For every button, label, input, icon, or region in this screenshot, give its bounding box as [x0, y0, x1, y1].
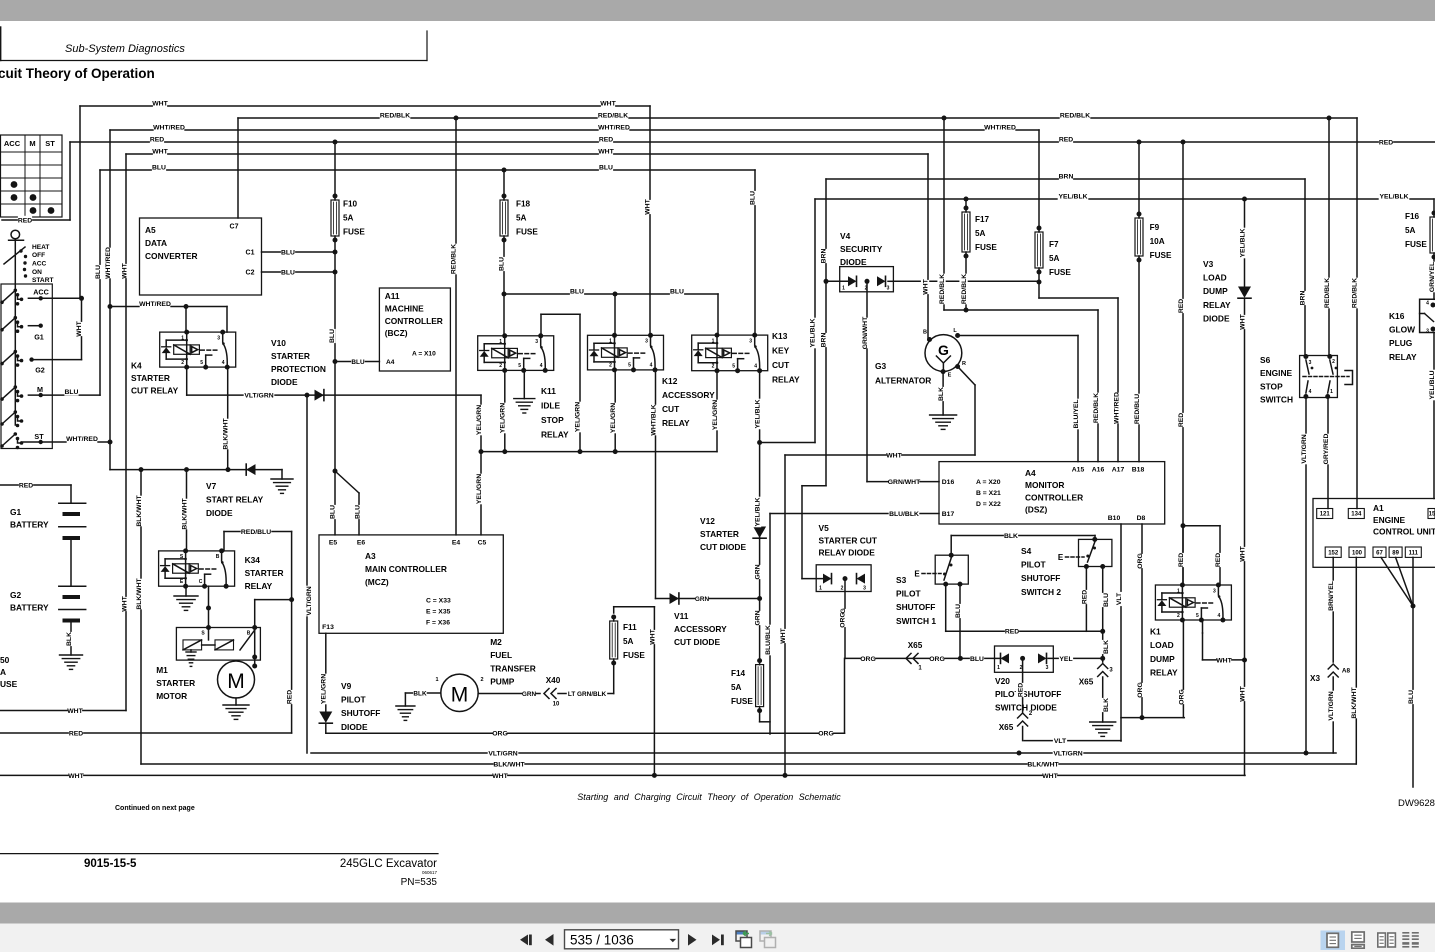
svg-text:RED/BLK: RED/BLK	[1060, 112, 1090, 119]
svg-text:RED: RED	[286, 690, 293, 704]
svg-text:BRN/YEL: BRN/YEL	[1328, 581, 1335, 611]
svg-text:WHT: WHT	[780, 627, 787, 643]
svg-text:FUSE: FUSE	[623, 651, 645, 660]
svg-text:111: 111	[1409, 550, 1419, 556]
svg-text:BRN: BRN	[1059, 173, 1074, 180]
svg-text:DUMP: DUMP	[1203, 286, 1228, 296]
svg-text:SWITCH: SWITCH	[1260, 395, 1293, 405]
svg-text:GRN: GRN	[754, 610, 761, 625]
svg-text:RED: RED	[1081, 590, 1088, 604]
svg-text:ST: ST	[45, 139, 55, 148]
svg-text:BLU: BLU	[65, 389, 79, 396]
svg-text:FUSE: FUSE	[516, 228, 538, 237]
svg-text:GRN: GRN	[754, 564, 761, 579]
svg-text:STARTER CUT: STARTER CUT	[819, 535, 878, 545]
svg-text:ACCESSORY: ACCESSORY	[674, 624, 727, 634]
svg-text:GRN/YEL: GRN/YEL	[1429, 262, 1435, 292]
svg-text:5: 5	[1196, 613, 1199, 619]
svg-text:BLU: BLU	[351, 359, 365, 366]
svg-text:RED/BLK: RED/BLK	[1324, 278, 1331, 308]
svg-text:C5: C5	[478, 539, 487, 546]
svg-text:5: 5	[200, 360, 203, 366]
svg-text:ENGINE: ENGINE	[1260, 368, 1293, 378]
svg-text:BLU: BLU	[749, 191, 756, 205]
svg-text:BATTERY: BATTERY	[10, 603, 49, 613]
svg-text:BLU: BLU	[599, 164, 613, 171]
svg-text:YEL/BLK: YEL/BLK	[1379, 193, 1408, 200]
svg-text:G2: G2	[35, 366, 45, 375]
svg-text:FUSE: FUSE	[1150, 251, 1172, 260]
svg-text:V5: V5	[819, 523, 830, 533]
svg-text:YEL/GRN: YEL/GRN	[476, 474, 483, 504]
svg-text:RED: RED	[1005, 629, 1019, 636]
svg-text:GRY/RED: GRY/RED	[1323, 434, 1330, 465]
svg-text:VLT/GRN: VLT/GRN	[244, 393, 273, 400]
svg-text:2: 2	[480, 677, 483, 683]
svg-text:GRN: GRN	[522, 691, 537, 698]
svg-text:START: START	[32, 277, 54, 284]
svg-text:FUSE: FUSE	[731, 697, 753, 706]
svg-text:CONVERTER: CONVERTER	[145, 251, 198, 261]
svg-text:DIODE: DIODE	[206, 508, 233, 518]
svg-text:PILOT: PILOT	[896, 589, 922, 599]
svg-text:2: 2	[841, 585, 844, 591]
svg-text:WHT/RED: WHT/RED	[1113, 392, 1120, 424]
svg-text:LOAD: LOAD	[1203, 273, 1227, 283]
svg-text:WHT: WHT	[152, 148, 168, 155]
svg-text:E4: E4	[452, 539, 461, 546]
svg-text:WHT: WHT	[600, 100, 616, 107]
svg-text:X65: X65	[999, 723, 1014, 732]
svg-text:MOTOR: MOTOR	[156, 691, 187, 701]
svg-text:YEL/BLK: YEL/BLK	[1239, 228, 1246, 257]
svg-text:FUSE: FUSE	[975, 243, 997, 252]
svg-text:15: 15	[1429, 512, 1435, 518]
svg-text:WHT: WHT	[121, 262, 128, 278]
svg-text:MACHINE: MACHINE	[385, 303, 424, 313]
svg-text:RELAY: RELAY	[1150, 668, 1178, 678]
svg-text:RED/BLK: RED/BLK	[939, 274, 946, 304]
svg-text:F11: F11	[623, 623, 637, 632]
svg-text:50: 50	[0, 655, 10, 665]
svg-text:S4: S4	[1021, 546, 1032, 556]
svg-text:WHT: WHT	[1239, 545, 1246, 561]
svg-text:STARTER: STARTER	[700, 529, 739, 539]
svg-text:V7: V7	[206, 481, 217, 491]
svg-text:134: 134	[1351, 512, 1362, 518]
svg-text:5: 5	[518, 363, 521, 369]
svg-text:VLT/GRN: VLT/GRN	[306, 586, 313, 615]
svg-text:ORG: ORG	[1137, 553, 1144, 568]
svg-text:67: 67	[1376, 550, 1383, 556]
svg-text:B17: B17	[942, 511, 955, 518]
svg-text:BLU: BLU	[955, 604, 962, 618]
svg-text:4: 4	[1309, 389, 1312, 395]
svg-text:5A: 5A	[975, 229, 986, 238]
svg-text:YEL/GRN: YEL/GRN	[574, 402, 581, 432]
svg-text:HEAT: HEAT	[32, 244, 49, 251]
svg-text:WHT: WHT	[152, 100, 168, 107]
svg-text:YEL/BLK: YEL/BLK	[809, 318, 816, 347]
svg-text:5A: 5A	[623, 637, 634, 646]
svg-text:A5: A5	[145, 225, 156, 235]
svg-text:ORG: ORG	[839, 612, 846, 627]
svg-text:PN=535: PN=535	[401, 877, 438, 888]
svg-text:RED/BLK: RED/BLK	[598, 112, 628, 119]
svg-text:A16: A16	[1092, 466, 1105, 473]
svg-text:YEL/BLU: YEL/BLU	[1429, 370, 1435, 399]
svg-text:BLK: BLK	[1103, 640, 1110, 654]
svg-text:A = X20: A = X20	[976, 479, 1001, 486]
svg-text:1: 1	[1330, 389, 1333, 395]
svg-text:F16: F16	[1405, 212, 1420, 221]
svg-text:10A: 10A	[1150, 237, 1165, 246]
svg-text:1: 1	[609, 339, 612, 345]
svg-text:GRN/WHT: GRN/WHT	[888, 479, 921, 486]
svg-text:SHUTOFF: SHUTOFF	[1021, 573, 1060, 583]
svg-text:5: 5	[628, 363, 631, 369]
svg-text:E = X35: E = X35	[426, 608, 451, 615]
svg-text:2: 2	[1177, 613, 1180, 619]
svg-text:X40: X40	[546, 676, 561, 685]
svg-text:VLT: VLT	[1116, 592, 1123, 605]
svg-text:A1: A1	[1373, 503, 1384, 513]
svg-text:RED: RED	[1059, 136, 1073, 143]
svg-text:CONTROLLER: CONTROLLER	[385, 316, 443, 326]
svg-text:SHUTOFF: SHUTOFF	[896, 602, 935, 612]
svg-text:K16: K16	[1389, 311, 1405, 321]
svg-text:GLOW: GLOW	[1389, 325, 1415, 335]
svg-text:D = X22: D = X22	[976, 501, 1001, 508]
svg-text:ACC: ACC	[4, 139, 21, 148]
svg-text:ALTERNATOR: ALTERNATOR	[875, 376, 931, 386]
svg-text:BLK/WHT: BLK/WHT	[493, 761, 525, 768]
svg-text:IDLE: IDLE	[541, 401, 560, 411]
svg-text:PROTECTION: PROTECTION	[271, 364, 326, 374]
svg-text:RELAY: RELAY	[541, 430, 569, 440]
svg-text:ORG: ORG	[1178, 689, 1185, 704]
svg-text:TRANSFER: TRANSFER	[490, 663, 536, 673]
svg-text:RED/BLK: RED/BLK	[961, 274, 968, 304]
svg-text:MONITOR: MONITOR	[1025, 480, 1064, 490]
svg-text:CUT DIODE: CUT DIODE	[674, 637, 720, 647]
svg-text:PLUG: PLUG	[1389, 338, 1412, 348]
svg-text:DUMP: DUMP	[1150, 654, 1175, 664]
svg-text:PILOT: PILOT	[1021, 560, 1047, 570]
svg-text:5A: 5A	[1405, 226, 1416, 235]
svg-text:4: 4	[1218, 613, 1221, 619]
svg-text:4: 4	[754, 364, 757, 370]
svg-text:245GLC Excavator: 245GLC Excavator	[340, 858, 437, 870]
svg-text:KEY: KEY	[772, 346, 790, 356]
svg-text:9015-15-5: 9015-15-5	[84, 858, 137, 870]
svg-text:BLK/WHT: BLK/WHT	[1351, 686, 1358, 718]
svg-text:(BCZ): (BCZ)	[385, 328, 408, 338]
svg-text:Sub-System Diagnostics: Sub-System Diagnostics	[65, 43, 185, 55]
svg-text:1: 1	[181, 335, 184, 341]
svg-text:4: 4	[650, 363, 653, 369]
svg-text:M1: M1	[156, 665, 168, 675]
svg-text:BLU: BLU	[329, 505, 336, 519]
svg-text:CUT: CUT	[772, 360, 790, 370]
svg-text:2: 2	[609, 363, 612, 369]
svg-text:E: E	[1058, 553, 1064, 562]
svg-text:RELAY DIODE: RELAY DIODE	[819, 548, 876, 558]
svg-text:K12: K12	[662, 376, 678, 386]
svg-text:V20: V20	[995, 676, 1010, 686]
svg-text:SWITCH 2: SWITCH 2	[1021, 587, 1061, 597]
svg-text:ON: ON	[32, 269, 42, 276]
svg-text:WHT: WHT	[649, 628, 656, 644]
svg-text:E: E	[914, 569, 920, 578]
svg-text:LOAD: LOAD	[1150, 640, 1174, 650]
svg-text:060617: 060617	[422, 870, 438, 875]
svg-text:SECURITY: SECURITY	[840, 244, 883, 254]
svg-text:BLK/WHT: BLK/WHT	[136, 494, 143, 526]
svg-text:WHT: WHT	[121, 595, 128, 611]
svg-text:2: 2	[1020, 665, 1023, 671]
svg-text:G1: G1	[34, 333, 44, 342]
svg-text:F10: F10	[343, 200, 358, 209]
svg-text:1: 1	[712, 338, 715, 344]
svg-text:BLU/BLK: BLU/BLK	[889, 511, 919, 518]
svg-text:D16: D16	[942, 479, 955, 486]
svg-text:F7: F7	[1049, 240, 1059, 249]
svg-text:1: 1	[819, 585, 822, 591]
svg-text:YEL/GRN: YEL/GRN	[499, 403, 506, 433]
svg-text:ACC: ACC	[32, 261, 47, 268]
svg-text:3: 3	[217, 335, 220, 341]
svg-text:WHT/RED: WHT/RED	[153, 124, 185, 131]
svg-text:USE: USE	[0, 679, 18, 689]
svg-text:CONTROLLER: CONTROLLER	[1025, 492, 1083, 502]
svg-text:1: 1	[499, 339, 502, 345]
svg-text:5A: 5A	[516, 214, 527, 223]
svg-text:BLU: BLU	[1408, 690, 1415, 704]
svg-text:DIODE: DIODE	[1203, 313, 1230, 323]
svg-text:WHT/RED: WHT/RED	[105, 247, 112, 279]
svg-text:ORG: ORG	[818, 731, 833, 738]
svg-text:YEL/GRN: YEL/GRN	[320, 674, 327, 704]
svg-text:M: M	[451, 684, 469, 707]
svg-text:ST: ST	[34, 432, 44, 441]
svg-text:3: 3	[863, 585, 866, 591]
svg-text:BLU: BLU	[354, 505, 361, 519]
svg-text:(DSZ): (DSZ)	[1025, 505, 1048, 515]
svg-text:R: R	[962, 361, 966, 367]
svg-text:STOP: STOP	[541, 415, 564, 425]
svg-text:A4: A4	[386, 359, 395, 366]
svg-text:121: 121	[1320, 512, 1331, 518]
svg-text:RED/BLK: RED/BLK	[380, 112, 410, 119]
svg-text:F14: F14	[731, 669, 746, 678]
svg-text:BRN: BRN	[1299, 291, 1306, 306]
svg-text:RED: RED	[1178, 413, 1185, 427]
svg-text:STARTER: STARTER	[156, 678, 195, 688]
svg-text:WHT: WHT	[68, 773, 84, 780]
svg-text:1: 1	[435, 677, 438, 683]
svg-text:RED: RED	[1178, 553, 1185, 567]
svg-text:FUEL: FUEL	[490, 650, 512, 660]
svg-text:WHT: WHT	[1239, 685, 1246, 701]
svg-text:100: 100	[1352, 550, 1363, 556]
svg-text:A11: A11	[385, 291, 400, 301]
svg-text:4: 4	[222, 360, 225, 366]
svg-text:BLK: BLK	[66, 632, 73, 646]
svg-text:B: B	[923, 330, 927, 336]
svg-text:S3: S3	[896, 575, 907, 585]
svg-text:VLT: VLT	[1054, 738, 1067, 745]
svg-text:RED/BLK: RED/BLK	[1093, 393, 1100, 423]
svg-text:RED/BLK: RED/BLK	[1351, 278, 1358, 308]
svg-text:BATTERY: BATTERY	[10, 520, 49, 530]
svg-text:ORG: ORG	[860, 656, 875, 663]
svg-text:STARTER: STARTER	[271, 351, 310, 361]
svg-text:M: M	[227, 670, 245, 693]
svg-text:STOP: STOP	[1260, 381, 1283, 391]
svg-text:A = X10: A = X10	[412, 350, 436, 357]
svg-text:RELAY: RELAY	[245, 581, 273, 591]
svg-text:A15: A15	[1072, 466, 1085, 473]
svg-text:BLK: BLK	[938, 387, 945, 401]
svg-text:RELAY: RELAY	[772, 375, 800, 385]
svg-text:BLK/WHT: BLK/WHT	[136, 577, 143, 609]
svg-text:4: 4	[1426, 300, 1429, 306]
svg-text:CUT: CUT	[662, 404, 680, 414]
svg-text:2: 2	[499, 363, 502, 369]
svg-text:A8: A8	[1342, 667, 1351, 674]
svg-text:5A: 5A	[343, 214, 354, 223]
svg-text:A: A	[0, 667, 6, 677]
svg-text:BLU/BLK: BLU/BLK	[765, 625, 772, 655]
svg-text:STARTER: STARTER	[245, 568, 284, 578]
svg-text:K1: K1	[1150, 627, 1161, 637]
svg-text:RED: RED	[1379, 139, 1393, 146]
svg-text:RED: RED	[1215, 553, 1222, 567]
svg-text:K11: K11	[541, 386, 556, 396]
svg-text:YEL/GRN: YEL/GRN	[712, 400, 719, 430]
svg-text:F17: F17	[975, 215, 990, 224]
svg-text:535 / 1036: 535 / 1036	[570, 933, 634, 948]
svg-text:V9: V9	[341, 681, 352, 691]
svg-text:BLU: BLU	[670, 288, 684, 295]
svg-text:RED/BLK: RED/BLK	[450, 244, 457, 274]
svg-text:PILOT: PILOT	[341, 695, 367, 705]
svg-text:G3: G3	[875, 361, 887, 371]
svg-text:LT GRN/BLK: LT GRN/BLK	[568, 691, 607, 698]
svg-text:RED: RED	[1017, 683, 1024, 697]
svg-text:DIODE: DIODE	[840, 257, 867, 267]
svg-text:GRN: GRN	[695, 596, 710, 603]
svg-text:X65: X65	[908, 641, 923, 650]
svg-text:BLU: BLU	[281, 269, 295, 276]
svg-text:3: 3	[1046, 665, 1049, 671]
svg-text:YEL/BLK: YEL/BLK	[1058, 193, 1087, 200]
svg-text:V10: V10	[271, 338, 286, 348]
svg-text:E6: E6	[357, 539, 366, 546]
svg-text:3: 3	[645, 339, 648, 345]
svg-text:C: C	[199, 579, 203, 585]
svg-text:GRN/WHT: GRN/WHT	[862, 316, 869, 349]
svg-text:CUT RELAY: CUT RELAY	[131, 386, 179, 396]
svg-text:1: 1	[1177, 588, 1180, 594]
svg-text:BLK/WHT: BLK/WHT	[181, 497, 188, 529]
svg-text:(MCZ): (MCZ)	[365, 577, 389, 587]
svg-text:B10: B10	[1108, 515, 1121, 522]
svg-text:5A: 5A	[731, 683, 742, 692]
svg-text:STARTER: STARTER	[131, 373, 170, 383]
svg-text:YEL: YEL	[1059, 656, 1072, 663]
svg-text:BLK: BLK	[1103, 698, 1110, 712]
svg-text:BRN: BRN	[820, 333, 827, 348]
svg-text:WHT: WHT	[1239, 313, 1246, 329]
svg-text:2: 2	[181, 360, 184, 366]
svg-text:START RELAY: START RELAY	[206, 495, 264, 505]
svg-text:B18: B18	[1132, 466, 1145, 473]
svg-text:RED: RED	[599, 136, 613, 143]
svg-text:BLK: BLK	[413, 690, 427, 697]
svg-text:V12: V12	[700, 516, 715, 526]
svg-text:2: 2	[712, 364, 715, 370]
svg-text:WHT: WHT	[76, 320, 83, 336]
svg-text:89: 89	[1392, 550, 1399, 556]
svg-text:SWITCH 1: SWITCH 1	[896, 616, 936, 626]
svg-text:2: 2	[865, 285, 868, 291]
svg-text:DW96280: DW96280	[1398, 798, 1435, 809]
svg-text:BLU: BLU	[329, 329, 336, 343]
svg-text:B: B	[216, 554, 220, 560]
svg-text:BLU/YEL: BLU/YEL	[1073, 399, 1080, 428]
svg-text:VLT/GRN: VLT/GRN	[1301, 434, 1308, 463]
svg-text:ORG: ORG	[1137, 682, 1144, 697]
svg-text:RED: RED	[18, 217, 32, 224]
svg-text:1: 1	[842, 285, 845, 291]
svg-text:RED: RED	[150, 136, 164, 143]
svg-text:BLK/WHT: BLK/WHT	[222, 417, 229, 449]
svg-text:A17: A17	[1112, 466, 1125, 473]
svg-text:V3: V3	[1203, 259, 1214, 269]
svg-text:K34: K34	[245, 555, 261, 565]
svg-text:BLU: BLU	[281, 249, 295, 256]
svg-text:WHT/BLK: WHT/BLK	[650, 404, 657, 435]
svg-text:WHT: WHT	[644, 198, 651, 214]
svg-text:BRN: BRN	[820, 249, 827, 264]
svg-text:BLU: BLU	[152, 164, 166, 171]
svg-text:152: 152	[1328, 550, 1339, 556]
svg-text:BLU: BLU	[1103, 593, 1110, 607]
svg-text:MAIN CONTROLLER: MAIN CONTROLLER	[365, 564, 447, 574]
svg-text:4: 4	[540, 363, 543, 369]
svg-text:V4: V4	[840, 231, 851, 241]
svg-text:RED: RED	[19, 482, 33, 489]
svg-text:M2: M2	[490, 637, 502, 647]
svg-text:F18: F18	[516, 200, 531, 209]
svg-text:E: E	[948, 373, 952, 379]
svg-text:3: 3	[887, 285, 890, 291]
svg-text:ORG: ORG	[492, 731, 507, 738]
svg-text:OFF: OFF	[32, 252, 45, 259]
svg-text:X65: X65	[1079, 678, 1094, 687]
svg-text:ACCESSORY: ACCESSORY	[662, 390, 715, 400]
svg-text:F13: F13	[322, 624, 334, 631]
svg-text:3: 3	[749, 338, 752, 344]
svg-text:CONTROL UNIT: CONTROL UNIT	[1373, 527, 1435, 537]
svg-text:E5: E5	[329, 539, 338, 546]
svg-text:WHT: WHT	[67, 708, 83, 715]
svg-text:G2: G2	[10, 590, 22, 600]
svg-text:V11: V11	[674, 611, 689, 621]
svg-text:DATA: DATA	[145, 238, 167, 248]
